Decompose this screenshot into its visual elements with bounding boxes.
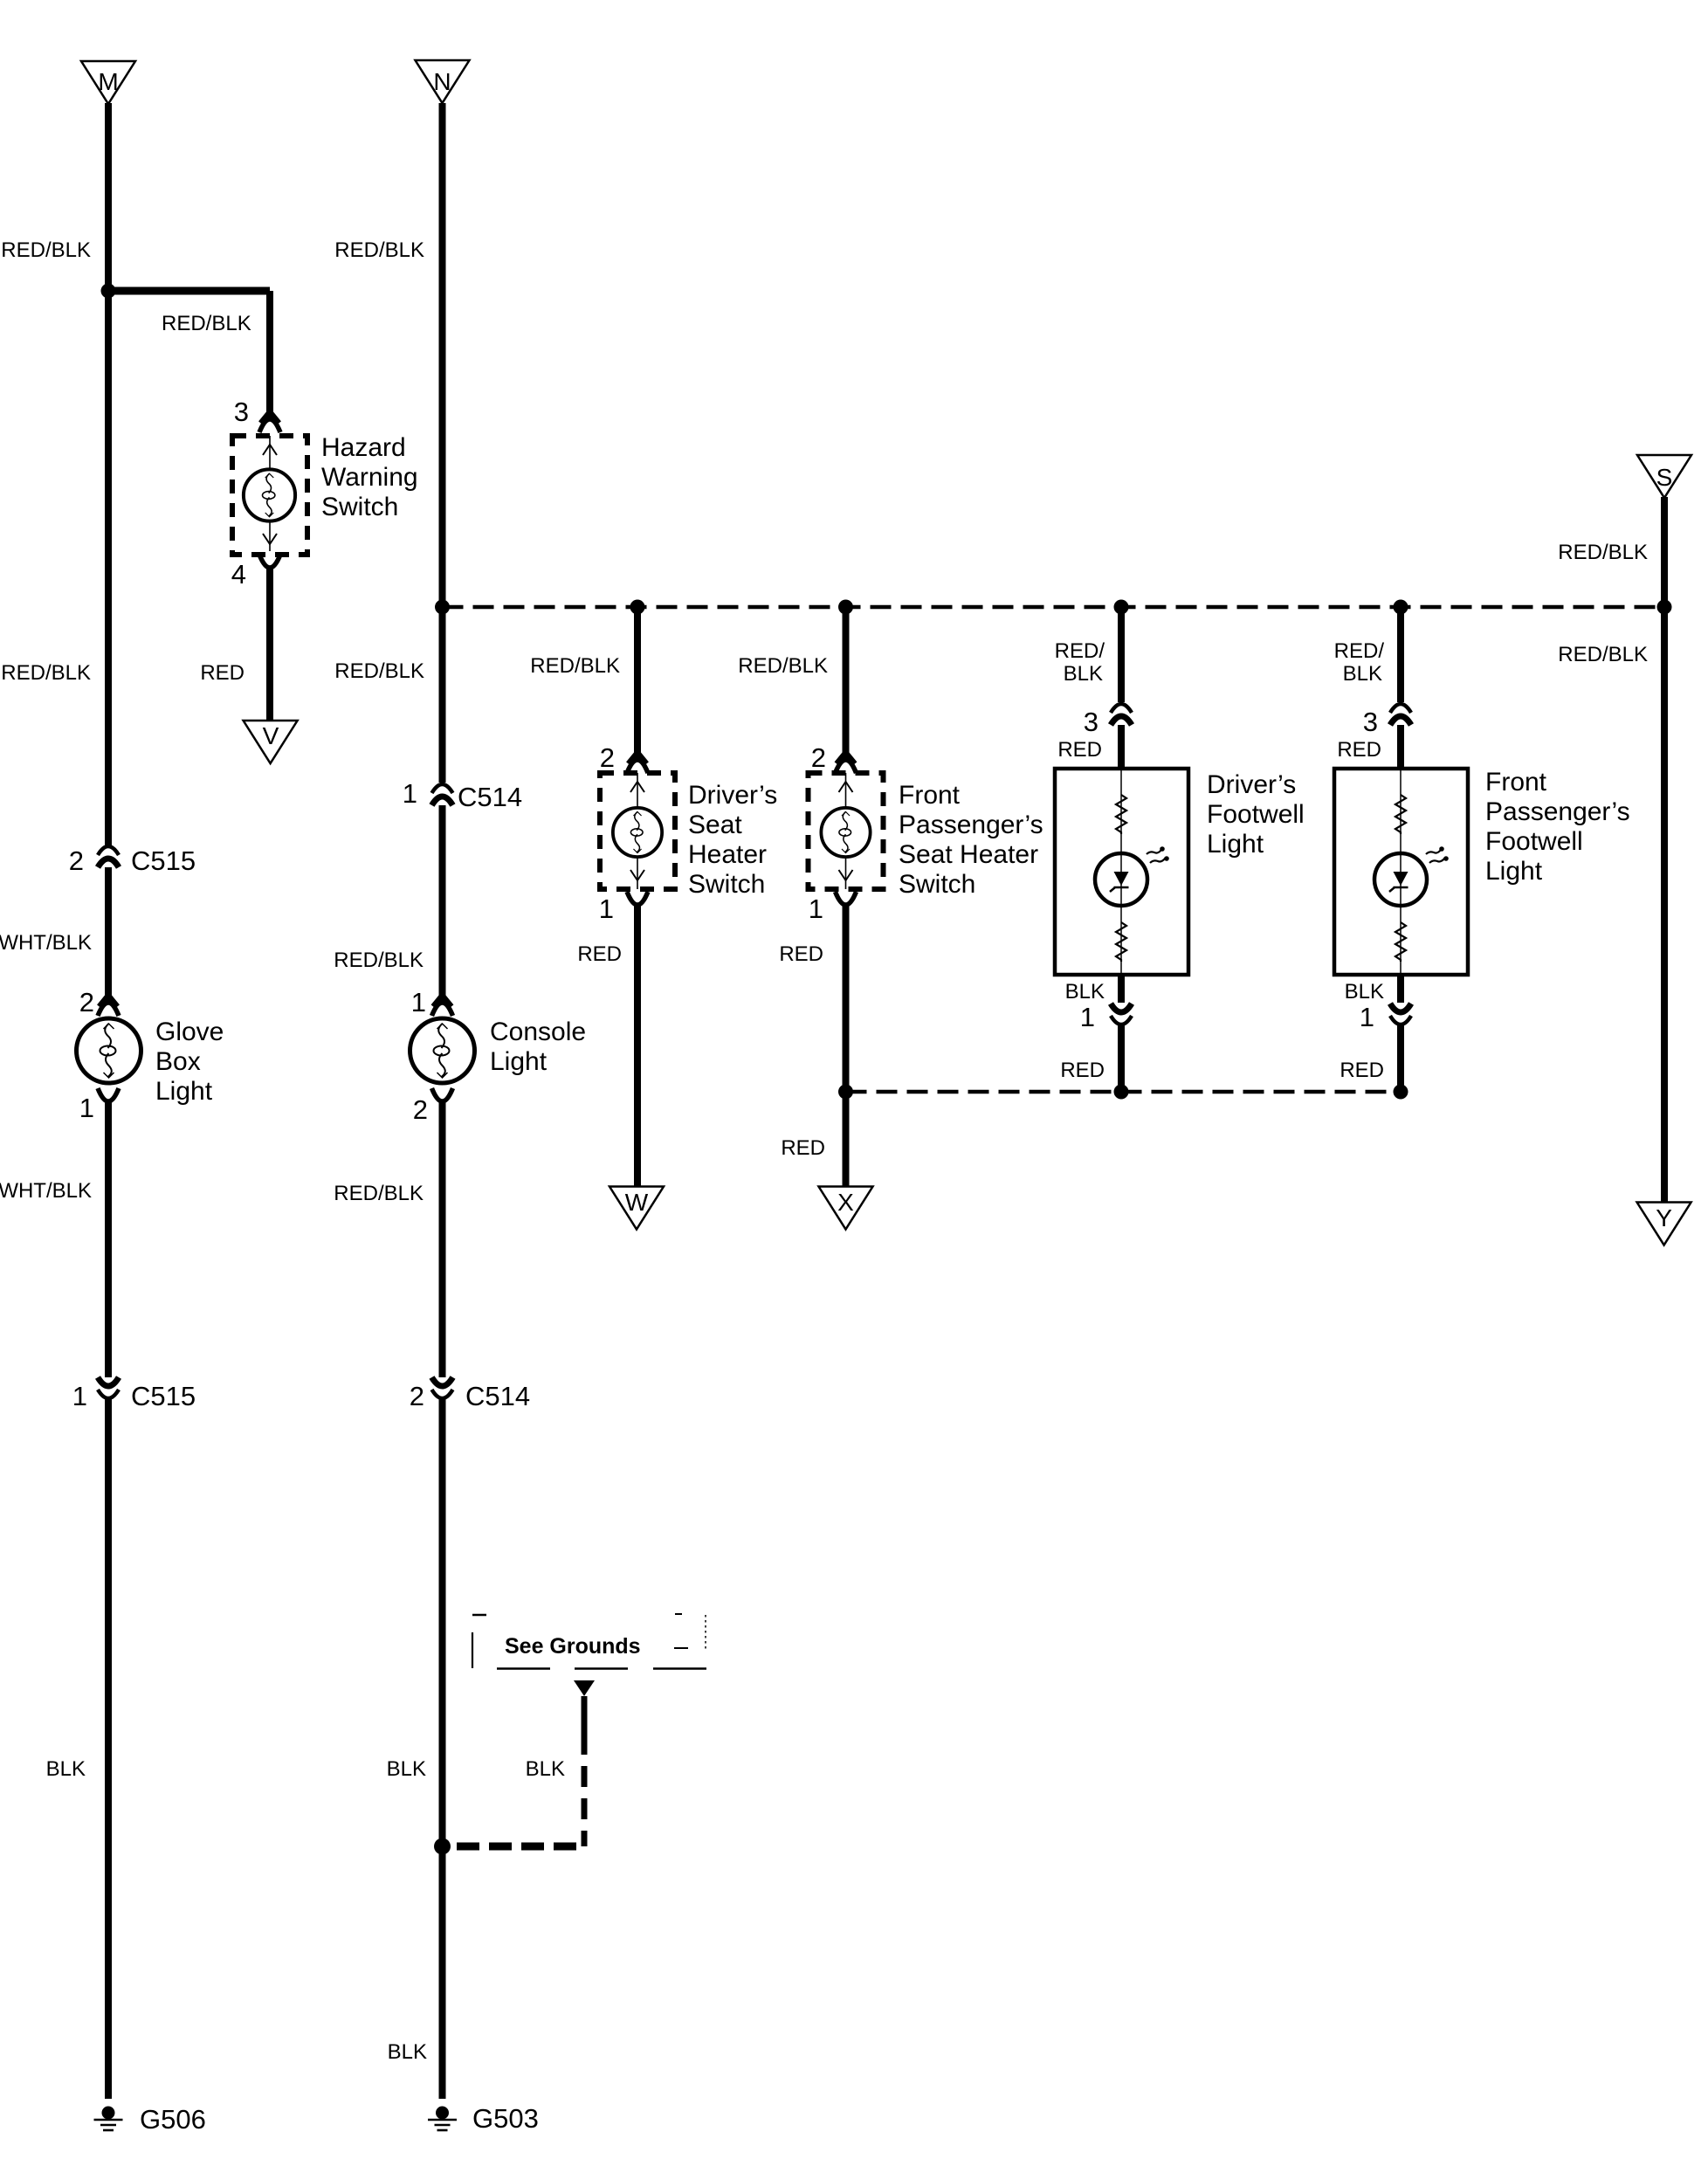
svg-text:RED/BLK: RED/BLK <box>334 949 424 972</box>
svg-text:Light: Light <box>1485 857 1543 886</box>
svg-text:C515: C515 <box>131 1381 196 1411</box>
svg-text:1: 1 <box>1080 1002 1095 1032</box>
svg-text:Seat Heater: Seat Heater <box>899 840 1038 869</box>
svg-text:RED/BLK: RED/BLK <box>1 661 91 685</box>
svg-text:BLK: BLK <box>387 1757 426 1781</box>
svg-text:RED/BLK: RED/BLK <box>530 654 620 678</box>
svg-text:Heater: Heater <box>688 840 767 869</box>
svg-text:Front: Front <box>1485 768 1547 797</box>
svg-text:Light: Light <box>490 1047 548 1076</box>
svg-text:1: 1 <box>72 1381 87 1411</box>
svg-text:RED: RED <box>1337 738 1381 762</box>
svg-text:RED: RED <box>781 1136 825 1160</box>
svg-text:Y: Y <box>1656 1204 1672 1231</box>
svg-text:Warning: Warning <box>321 463 418 492</box>
svg-text:Hazard: Hazard <box>321 433 406 462</box>
svg-text:1: 1 <box>79 1093 94 1123</box>
svg-text:RED/BLK: RED/BLK <box>1558 643 1648 666</box>
svg-text:1: 1 <box>599 893 614 924</box>
svg-text:RED: RED <box>1057 738 1102 762</box>
svg-text:RED: RED <box>779 942 823 966</box>
svg-text:WHT/BLK: WHT/BLK <box>0 1179 92 1203</box>
svg-text:2: 2 <box>79 987 94 1018</box>
svg-text:X: X <box>837 1189 854 1216</box>
svg-text:RED/BLK: RED/BLK <box>162 312 251 335</box>
svg-text:RED/BLK: RED/BLK <box>1558 541 1648 564</box>
svg-text:RED/: RED/ <box>1334 639 1385 663</box>
svg-text:Front: Front <box>899 781 961 810</box>
svg-text:BLK: BLK <box>1064 662 1103 686</box>
svg-text:RED: RED <box>1060 1059 1105 1082</box>
svg-text:2: 2 <box>811 742 826 773</box>
svg-text:BLK: BLK <box>526 1757 565 1781</box>
svg-text:BLK: BLK <box>1345 980 1384 1004</box>
svg-text:Footwell: Footwell <box>1485 827 1583 856</box>
svg-text:RED/BLK: RED/BLK <box>334 238 424 262</box>
svg-text:Switch: Switch <box>321 493 398 521</box>
svg-text:Switch: Switch <box>899 870 975 899</box>
svg-text:RED/: RED/ <box>1055 639 1105 663</box>
svg-text:1: 1 <box>1360 1002 1374 1032</box>
svg-text:WHT/BLK: WHT/BLK <box>0 931 92 955</box>
svg-text:RED/BLK: RED/BLK <box>1 238 91 262</box>
svg-text:G503: G503 <box>472 2103 539 2134</box>
svg-text:Switch: Switch <box>688 870 765 899</box>
svg-text:M: M <box>98 68 118 95</box>
svg-text:3: 3 <box>234 397 249 427</box>
svg-text:2: 2 <box>600 742 615 773</box>
svg-text:RED: RED <box>200 661 244 685</box>
svg-text:C514: C514 <box>465 1381 530 1411</box>
svg-text:Glove: Glove <box>155 1018 224 1046</box>
svg-text:G506: G506 <box>140 2104 206 2135</box>
svg-text:N: N <box>433 68 451 95</box>
svg-text:C515: C515 <box>131 845 196 876</box>
svg-text:1: 1 <box>809 893 823 924</box>
svg-text:2: 2 <box>69 845 84 876</box>
svg-text:3: 3 <box>1084 707 1098 737</box>
svg-text:Driver’s: Driver’s <box>688 781 777 810</box>
svg-text:Driver’s: Driver’s <box>1207 770 1296 799</box>
svg-text:S: S <box>1656 464 1673 491</box>
svg-text:Passenger’s: Passenger’s <box>899 811 1043 839</box>
svg-text:Seat: Seat <box>688 811 742 839</box>
svg-text:Console: Console <box>490 1018 586 1046</box>
svg-text:BLK: BLK <box>1343 662 1382 686</box>
svg-text:RED/BLK: RED/BLK <box>738 654 828 678</box>
svg-text:V: V <box>263 722 279 749</box>
svg-text:Box: Box <box>155 1047 201 1076</box>
svg-text:4: 4 <box>231 559 246 590</box>
svg-text:1: 1 <box>411 987 426 1018</box>
svg-text:2: 2 <box>410 1381 424 1411</box>
svg-text:1: 1 <box>403 778 417 809</box>
svg-text:BLK: BLK <box>388 2040 427 2064</box>
svg-text:RED/BLK: RED/BLK <box>334 1182 424 1205</box>
svg-text:See Grounds: See Grounds <box>505 1634 641 1659</box>
svg-text:BLK: BLK <box>46 1757 86 1781</box>
svg-text:RED: RED <box>1340 1059 1384 1082</box>
svg-text:3: 3 <box>1363 707 1378 737</box>
svg-text:C514: C514 <box>458 782 522 812</box>
svg-text:RED/BLK: RED/BLK <box>334 659 424 683</box>
svg-text:Passenger’s: Passenger’s <box>1485 797 1630 826</box>
svg-text:Footwell: Footwell <box>1207 800 1305 829</box>
svg-text:W: W <box>625 1189 649 1216</box>
svg-text:Light: Light <box>155 1077 213 1106</box>
svg-text:RED: RED <box>577 942 622 966</box>
svg-text:BLK: BLK <box>1065 980 1105 1004</box>
svg-text:2: 2 <box>413 1094 428 1125</box>
svg-text:Light: Light <box>1207 830 1264 859</box>
